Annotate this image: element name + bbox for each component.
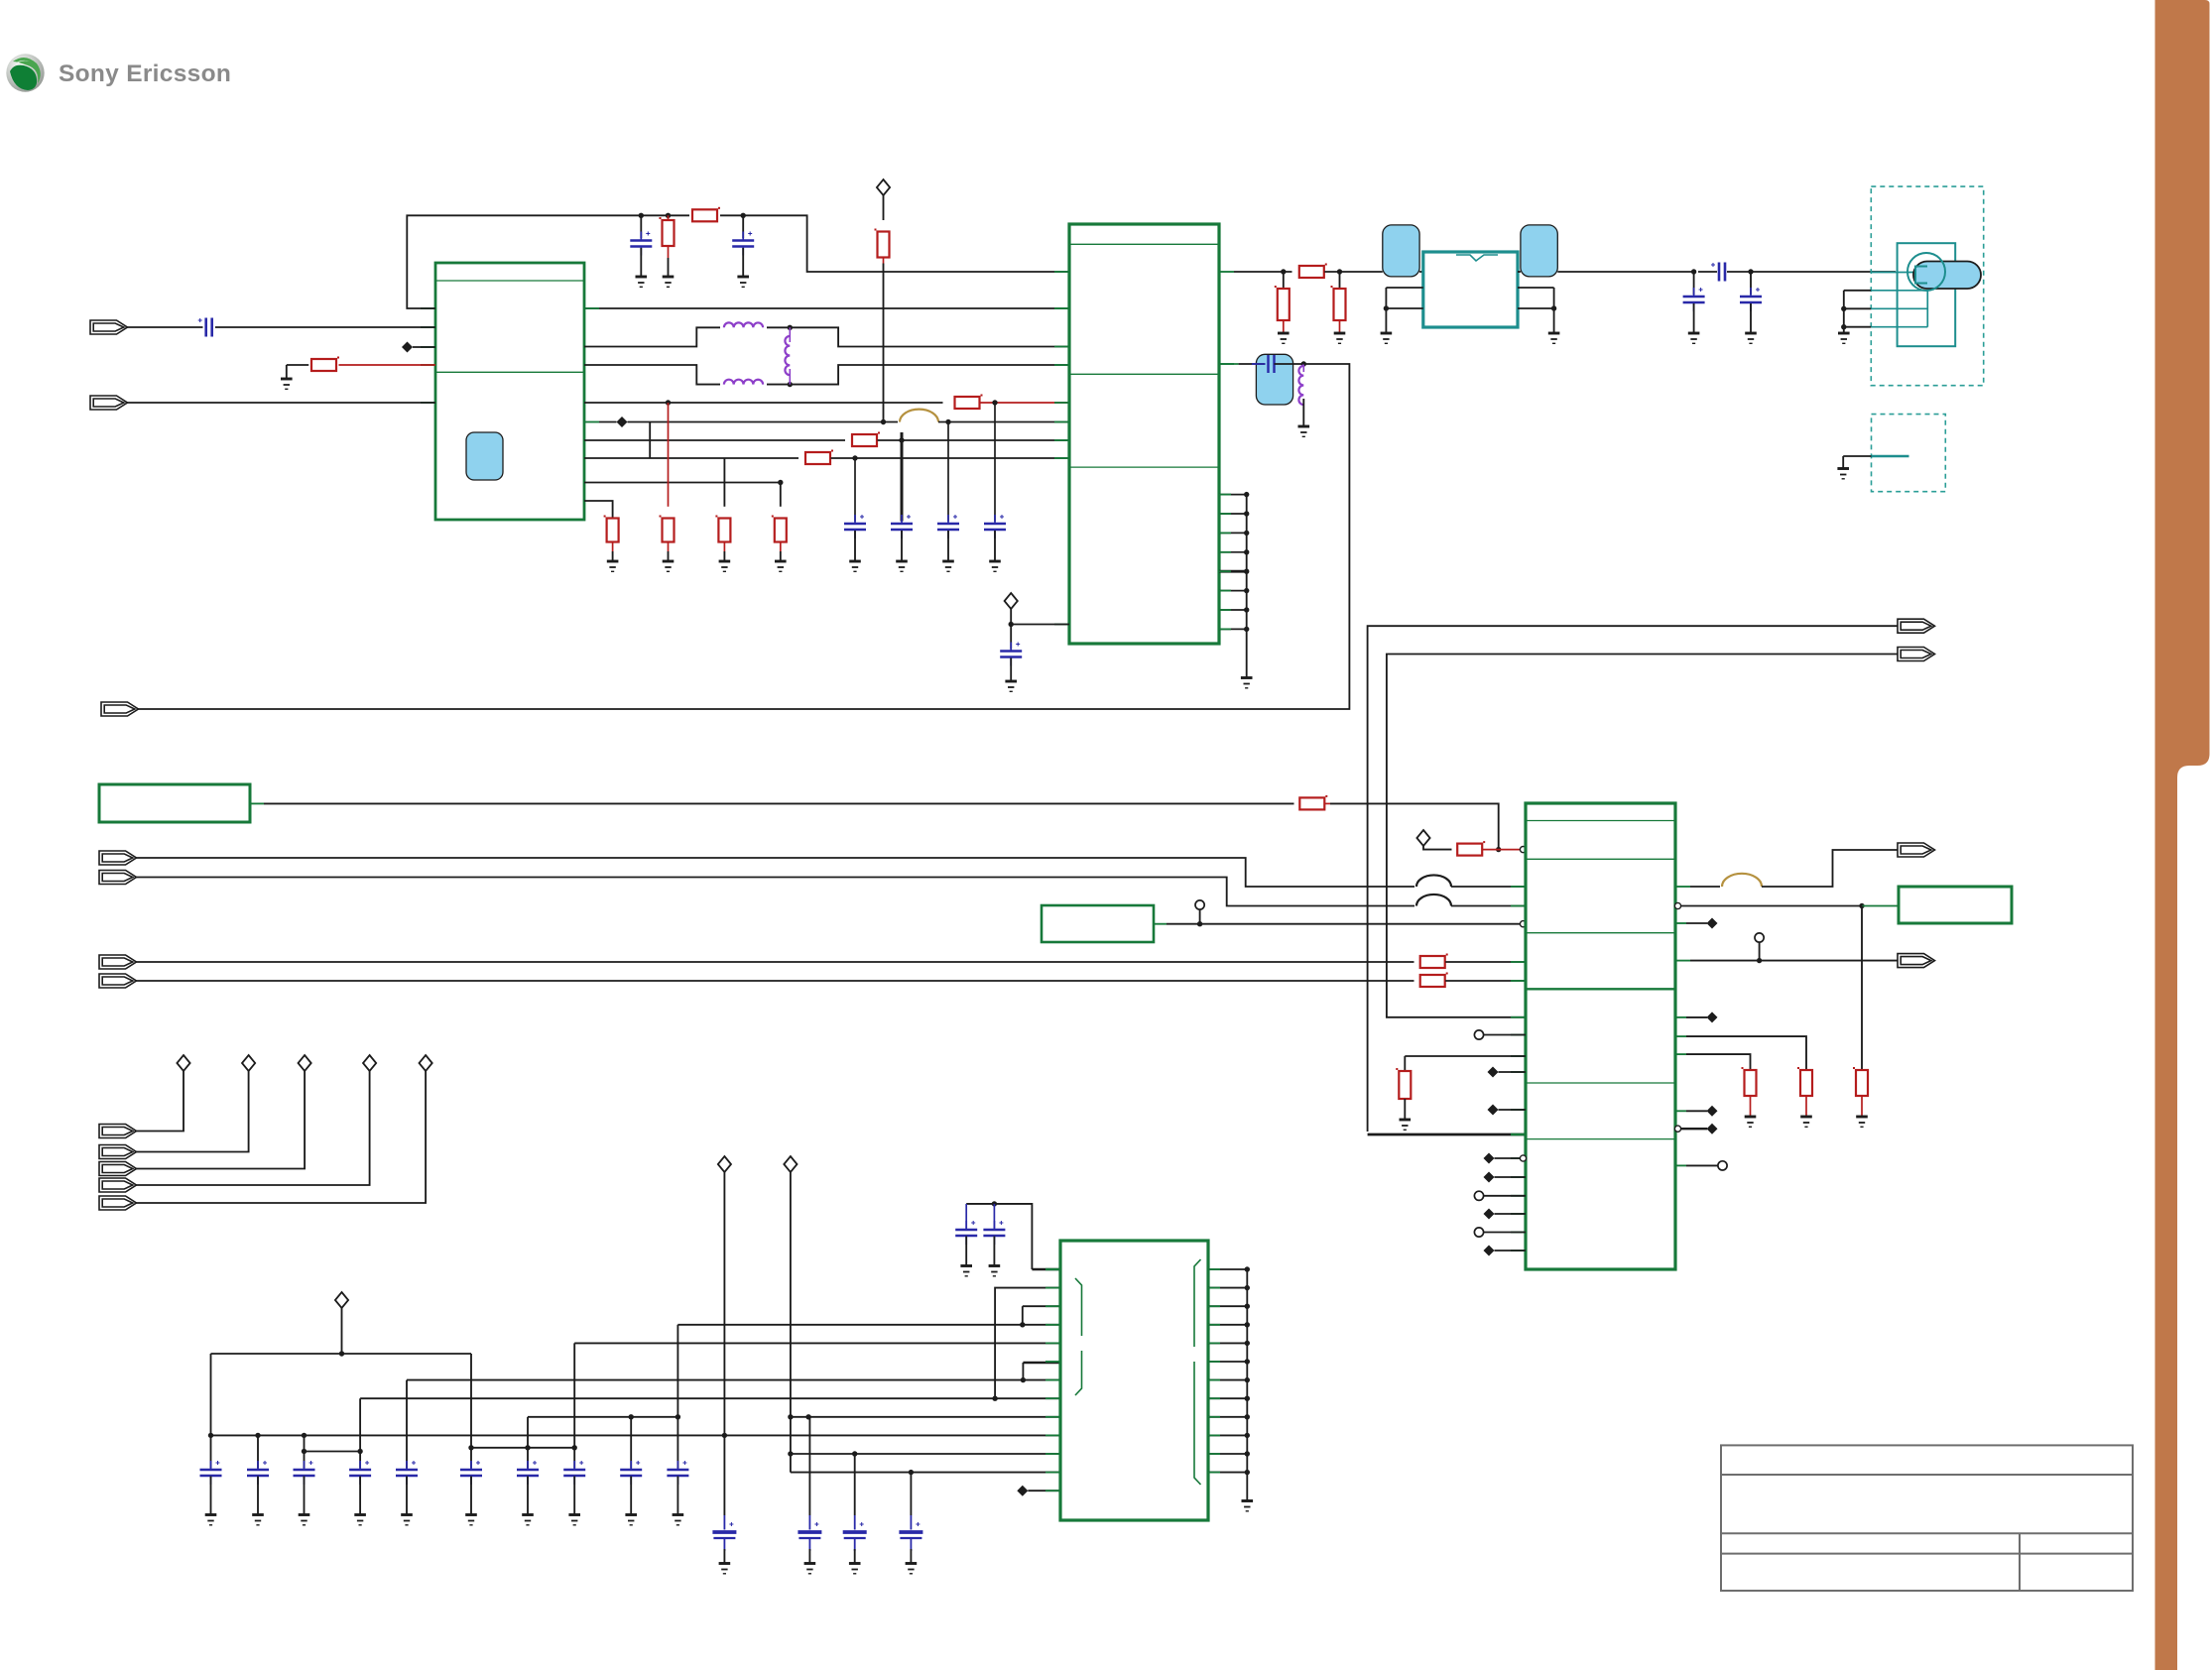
connector X7 [99, 974, 137, 988]
N2000 bus pin wire [1219, 570, 1247, 573]
wire w5 [584, 482, 781, 484]
junction [1859, 903, 1864, 908]
wire X5 to N2101 [136, 878, 1415, 906]
R11 lower lead [780, 542, 782, 552]
R19 feed [1404, 1056, 1406, 1071]
C24 feed [406, 1380, 408, 1469]
C2 ground lead [640, 248, 642, 277]
ground at C6 [942, 561, 954, 571]
N2300 inner bracket right [1194, 1259, 1201, 1485]
junction diamond [1707, 1106, 1718, 1117]
ground at R1 [281, 379, 293, 389]
connector X4 [99, 851, 137, 865]
junction [1245, 1341, 1250, 1346]
L3 top lead [789, 327, 791, 342]
capacitor C4 [844, 524, 866, 530]
N2000 bus pin wire [1219, 628, 1247, 630]
shunt cap feed [1750, 272, 1752, 295]
bus wire to p11 [791, 1453, 1060, 1455]
wire caps to N2300 p1 [966, 1204, 1032, 1269]
junction [1691, 269, 1696, 274]
shunt cap ground lead [1693, 303, 1695, 333]
ground at shunt resistor [1278, 333, 1290, 343]
wire [1499, 1109, 1527, 1111]
junction [881, 419, 886, 424]
wire M3 to node [1275, 363, 1304, 365]
junction [788, 1451, 793, 1456]
junction [788, 382, 793, 387]
junction [1245, 1359, 1250, 1364]
wire [1495, 1250, 1527, 1252]
resistor R13 [1278, 289, 1290, 320]
antenna ground wire [1844, 290, 1872, 292]
wire R2 to N2000 pin [720, 215, 1069, 272]
ground at antenna pad 2 [1837, 469, 1849, 479]
junction [1245, 1451, 1250, 1456]
SAW ground wire b [1386, 307, 1422, 309]
ground at R20 [1745, 1117, 1757, 1127]
connector X14 [99, 1162, 137, 1176]
resistor R3 [663, 220, 675, 246]
wire X16 to diamond [136, 1071, 427, 1203]
C27 feed [573, 1343, 575, 1468]
test point TP4 [1474, 1228, 1483, 1237]
resistor R10 [718, 519, 730, 542]
N2000 bus pin wire [1219, 609, 1247, 611]
wire into M3 [1239, 363, 1266, 365]
inductor L4 [1298, 366, 1303, 405]
wire [1686, 922, 1707, 924]
test point TP1 [1195, 900, 1204, 909]
wire R15 to N2101 pin net [1330, 803, 1499, 849]
wire X13 to diamond [136, 1071, 249, 1152]
cap ground lead [573, 1477, 575, 1515]
wire w2 [628, 421, 899, 423]
wire w6 to R8 [584, 501, 613, 519]
ground at R21 [1800, 1117, 1812, 1127]
ground at C27 [568, 1515, 580, 1525]
antenna pad lead [1871, 290, 1927, 292]
R3 ground lead [668, 258, 670, 277]
ground at C8 [1005, 681, 1017, 691]
resistor R19 [1399, 1071, 1411, 1099]
wire M1 to SAW [1419, 271, 1423, 273]
C35 feed [910, 1473, 912, 1515]
wire [1686, 1164, 1718, 1166]
junction diamond p13 [1017, 1486, 1028, 1496]
R9 feed (red) [668, 403, 670, 507]
shunt resistor feed [1283, 272, 1285, 288]
C26 feed [527, 1417, 529, 1469]
junction [1245, 1322, 1250, 1327]
bus wire to p8 [360, 1397, 1060, 1399]
wire [1495, 1213, 1527, 1215]
label box LB3 [1899, 887, 2012, 923]
wire to X11 [1690, 960, 1898, 962]
ground at R22 [1856, 1117, 1868, 1127]
cap ground lead [723, 1549, 725, 1564]
R16 to N2101 (red) [1483, 849, 1521, 851]
wire into N2101 [1451, 905, 1526, 907]
R19 ground lead [1404, 1099, 1406, 1120]
junction [992, 1201, 997, 1206]
diamond to R16 [1423, 846, 1452, 850]
wire R1 to U1 (red) [339, 364, 436, 366]
wire RF 1 [1234, 271, 1292, 273]
wire to LB3 [1681, 905, 1862, 907]
junction [255, 1433, 260, 1438]
resistor R17 [1420, 956, 1445, 968]
IC N2101 controller [1526, 803, 1675, 1269]
jog p6 to p7 row [1022, 1363, 1024, 1380]
C33 feed [808, 1417, 810, 1515]
bus wire caps 7-10 [528, 1416, 677, 1418]
junction [1384, 305, 1389, 310]
TP1 stem [1199, 909, 1201, 924]
wire X6 to R17 [136, 961, 1414, 963]
junction [208, 1433, 213, 1438]
junction [852, 1451, 857, 1456]
resistor R16 [1457, 844, 1482, 856]
L4 ground lead [1302, 399, 1304, 426]
antenna pad vertical [1926, 291, 1928, 327]
wire antenna pad 2 [1843, 455, 1871, 457]
wire [1495, 1157, 1521, 1159]
wire [1499, 1071, 1527, 1073]
junction [1244, 511, 1249, 516]
resistor R11 [775, 519, 787, 542]
junction [1245, 1433, 1250, 1438]
wire R4 down to net [883, 264, 885, 422]
wire ground to R1 [287, 364, 308, 366]
resistor R8 [607, 519, 619, 542]
net diamond VIO [335, 1292, 348, 1308]
junction [1244, 569, 1249, 574]
ground at C10 [1745, 333, 1757, 343]
TP5 stem [1759, 942, 1761, 961]
wire hop on w2 [900, 410, 938, 422]
orange sidebar [2155, 0, 2210, 1670]
decoupling module M3 [1256, 354, 1292, 405]
junction diamond [1707, 918, 1718, 929]
antenna pad lead [1871, 326, 1927, 328]
test point TP6 [1718, 1161, 1727, 1170]
pin bubble [1520, 921, 1526, 927]
wire to C11 [1698, 271, 1717, 273]
ground [960, 1266, 972, 1276]
capacitor C35 polarized [910, 1515, 912, 1530]
junction [525, 1445, 530, 1450]
R8 ground lead [612, 551, 614, 561]
wire p2 jog [995, 1288, 1060, 1399]
C25 feed [470, 1354, 472, 1469]
resistor R9 [663, 519, 675, 542]
capacitor C8 [1000, 652, 1022, 657]
capacitor C25 [460, 1470, 482, 1476]
connector X9 out [1898, 648, 1935, 661]
junction [1197, 921, 1202, 926]
junction [572, 1445, 577, 1450]
wire to antenna [1751, 271, 1896, 273]
SAW ground wire a [1386, 287, 1422, 289]
R9 lower lead [668, 542, 670, 552]
bus wire 1365 [211, 1353, 472, 1355]
N2000 bus pin wire [1219, 532, 1247, 534]
wire X14 to diamond [136, 1071, 306, 1169]
junction [1244, 492, 1249, 497]
cap ground lead [304, 1477, 306, 1515]
pin bubble [1674, 1126, 1680, 1132]
junction [339, 1351, 344, 1356]
R10 lower lead [723, 542, 725, 552]
bus vertical [1246, 1269, 1248, 1500]
shunt cap ground lead [1750, 303, 1752, 333]
jog wire [305, 1451, 361, 1453]
L3 bottom lead [789, 369, 791, 385]
net diamond D4 [363, 1055, 376, 1071]
TP2 wire [1484, 1034, 1526, 1036]
ground at C7 [989, 561, 1001, 571]
capacitor C7 [984, 524, 1006, 530]
junction [1020, 1322, 1025, 1327]
cap ground lead [965, 1237, 967, 1266]
N2300 right pin wire [1208, 1472, 1247, 1474]
antenna feed teal lead [1871, 272, 1915, 274]
cap ground lead [257, 1477, 259, 1515]
connector X1 input [90, 320, 128, 334]
test point TP2 [1474, 1030, 1483, 1039]
junction [1244, 531, 1249, 536]
capacitor C3 [732, 241, 754, 247]
antenna connector body [1898, 243, 1956, 346]
C23 feed [359, 1398, 361, 1468]
ground at C4 [849, 561, 861, 571]
wire LB1 to R15 [264, 802, 1294, 804]
wire to R20 [1686, 1054, 1751, 1071]
wire w4 to N2000 [831, 457, 1070, 459]
junction [1245, 1377, 1250, 1382]
ground at C2 [636, 277, 648, 287]
wire p13 [1028, 1490, 1060, 1491]
wire [1681, 1128, 1707, 1130]
junction [1021, 1377, 1026, 1382]
C34 feed [854, 1454, 856, 1515]
inverting pin bubble [1520, 847, 1526, 853]
wire w4 U1 side [584, 457, 799, 459]
connector X16 [99, 1196, 137, 1210]
junction [788, 1414, 793, 1419]
wire filter bottom to N2000 [767, 365, 1069, 385]
TP4 wire [1484, 1232, 1526, 1234]
wire [1686, 1110, 1707, 1112]
wire X4 to N2101 [136, 858, 1415, 887]
IC N2000 RF transceiver [1069, 224, 1219, 644]
bus vertical [1246, 495, 1248, 677]
SAW ground vertical [1385, 288, 1387, 333]
capacitor C29 [667, 1470, 688, 1476]
wire to N2000 pin [1011, 624, 1069, 626]
net diamond D3 [299, 1055, 311, 1071]
antenna ground vertical [1843, 291, 1845, 333]
connector X8 out [1898, 619, 1935, 633]
cap ground lead [359, 1477, 361, 1515]
junction [666, 400, 671, 405]
wire diamond to U1 [413, 346, 435, 348]
bus wire 1459 [471, 1447, 574, 1449]
wire [1686, 1016, 1707, 1018]
capacitor C27 [563, 1470, 585, 1476]
capacitor C32 polarized [723, 1515, 725, 1530]
wire R17 to N2101 [1445, 961, 1526, 963]
cap ground lead [910, 1549, 912, 1564]
test point TP5 [1755, 933, 1764, 942]
N2300 right pin wire [1208, 1287, 1247, 1289]
junction [1009, 622, 1014, 627]
wire jog w2-w4 [649, 422, 651, 459]
wire to p6 thick [1023, 1362, 1060, 1364]
R11 feed [780, 483, 782, 507]
wire to X10 [1762, 850, 1898, 887]
cap feed [993, 1204, 995, 1229]
wire LB2 to N2101 [1167, 923, 1520, 925]
wire X7 to R18 [136, 980, 1414, 982]
wire SAW to M2 [1518, 271, 1521, 273]
C6 feed [947, 422, 949, 522]
capacitor C9 [1683, 297, 1705, 302]
cap ground lead [854, 1549, 856, 1564]
junction [992, 400, 997, 405]
capacitor C11 series [1719, 263, 1725, 282]
wire R18 to N2101 [1445, 980, 1526, 982]
R20 lead [1750, 1096, 1752, 1117]
wire w2 to N2000 [938, 421, 1069, 423]
ground [989, 1266, 1001, 1276]
wire OUT1 thick to N2101 [1368, 1133, 1526, 1136]
resistor R12 [1299, 266, 1324, 278]
wire U1 to N2000 y311 [584, 307, 1069, 309]
ground at SAW [1381, 333, 1393, 343]
junction [1245, 1470, 1250, 1475]
capacitor C23 [349, 1470, 371, 1476]
junction [1244, 549, 1249, 554]
wire U1 loop top-left [407, 215, 689, 308]
junction [852, 455, 857, 460]
cap ground lead [406, 1477, 408, 1515]
net diamond D1 [177, 1055, 189, 1071]
SAW filter Z1 [1423, 252, 1518, 327]
junction [945, 419, 950, 424]
capacitor C22 [294, 1470, 315, 1476]
junction [1757, 958, 1762, 963]
connector X15 [99, 1178, 137, 1192]
SAW ground vertical [1553, 288, 1555, 333]
wire hop 913 [1416, 895, 1451, 906]
N2300 right pin wire [1208, 1324, 1247, 1326]
resistor R22 [1856, 1070, 1868, 1096]
ground at C20 [205, 1515, 217, 1525]
ground at C25 [465, 1515, 477, 1525]
C4 feed [854, 458, 856, 522]
N2300 right pin wire [1208, 1268, 1247, 1270]
junction [1244, 627, 1249, 632]
connector X2 input [90, 396, 128, 410]
wire to R21 [1686, 1036, 1806, 1071]
N2300 right pin wire [1208, 1434, 1247, 1436]
antenna pad 2 ground lead [1842, 456, 1844, 469]
capacitor C5 [891, 524, 913, 530]
wire U1 to filter bottom [584, 365, 720, 385]
Sony Ericsson logo ball [6, 54, 44, 91]
resistor R15 [1299, 797, 1324, 809]
capacitor C31 [983, 1230, 1005, 1236]
ground at antenna [1838, 333, 1850, 343]
wire D7 rail [790, 1172, 792, 1473]
wire R5 to N2000 (red) [980, 402, 1070, 404]
connector X10 out [1898, 843, 1935, 857]
R15 lead [1325, 802, 1330, 804]
C20 feed [210, 1354, 212, 1469]
SAW ground wire a [1518, 287, 1554, 289]
wire long loop to X3 [137, 364, 1349, 709]
diamond stem [1010, 609, 1012, 625]
ground at C33 [804, 1564, 816, 1574]
shunt resistor lead [1339, 320, 1341, 333]
capacitor C24 [396, 1470, 418, 1476]
label box LB2 [1042, 905, 1154, 942]
wire N2101 arc pin [1690, 886, 1720, 888]
junction [676, 1414, 680, 1419]
wire R1 ground lead [286, 365, 288, 379]
ground at R9 [663, 561, 675, 571]
junction [722, 1433, 727, 1438]
N2300 right pin wire [1208, 1361, 1247, 1363]
capacitor C30 [955, 1230, 977, 1236]
inductor L3 [785, 336, 790, 375]
junction [992, 1396, 997, 1401]
ground at C32 [719, 1564, 731, 1574]
secondary antenna dashed box [1872, 415, 1946, 492]
R10 ground lead [723, 551, 725, 561]
matching module M2 [1521, 225, 1557, 277]
C7 feed [994, 403, 996, 522]
ground at C9 [1688, 333, 1700, 343]
connector X3 [101, 702, 139, 716]
junction [302, 1449, 307, 1454]
R8 lower lead [612, 542, 614, 552]
junction [741, 213, 746, 218]
C29 feed [676, 1325, 678, 1469]
cap ground lead [527, 1477, 529, 1515]
junction [1841, 306, 1846, 311]
wire C1 to U1 pin [215, 326, 435, 328]
C3 ground lead [742, 248, 744, 277]
R4 lower lead [883, 258, 885, 264]
C8 feed [1010, 625, 1012, 650]
net diamond at N2101 [1416, 830, 1429, 846]
wire p1 thick [1032, 1268, 1060, 1271]
wire to C3 [742, 215, 744, 238]
antenna circle [1907, 253, 1945, 291]
wire down to R22 [1861, 906, 1863, 1071]
C22 feed [304, 1435, 306, 1468]
net diamond D7 [784, 1156, 797, 1172]
U1 internal module pad [466, 432, 503, 480]
junction [1337, 269, 1342, 274]
N2300 inner bracket left [1075, 1278, 1082, 1395]
ground at C24 [401, 1515, 413, 1525]
bus wire to p7 [407, 1379, 1060, 1381]
cap ground lead [676, 1477, 678, 1515]
